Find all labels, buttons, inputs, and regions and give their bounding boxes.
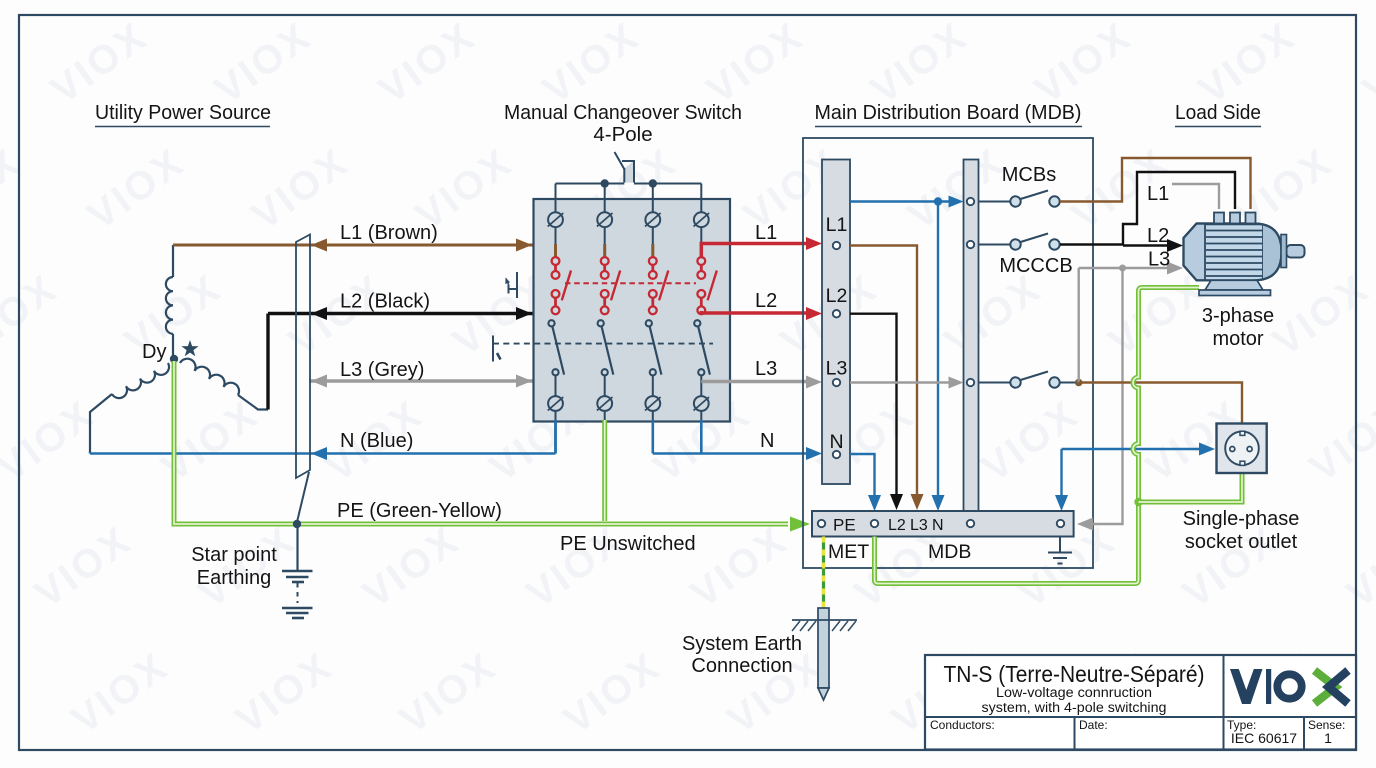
svg-text:L1: L1 [826, 214, 848, 236]
svg-text:L2: L2 [1147, 225, 1169, 247]
svg-text:4-Pole: 4-Pole [593, 123, 652, 146]
svg-text:N: N [760, 430, 774, 452]
svg-text:PE Unswitched: PE Unswitched [560, 533, 696, 555]
svg-text:L2: L2 [888, 517, 906, 534]
svg-text:3-phase: 3-phase [1202, 305, 1274, 327]
svg-text:MDB: MDB [928, 541, 971, 563]
svg-text:MCCCB: MCCCB [999, 255, 1072, 277]
svg-text:System Earth: System Earth [682, 633, 802, 655]
svg-text:Earthing: Earthing [197, 567, 272, 589]
svg-text:PE: PE [833, 516, 856, 535]
svg-text:L2: L2 [826, 285, 848, 307]
svg-text:Conductors:: Conductors: [930, 718, 995, 732]
svg-text:N: N [829, 431, 843, 453]
svg-text:L2: L2 [755, 290, 777, 312]
svg-text:Manual Changeover Switch: Manual Changeover Switch [504, 101, 742, 124]
svg-text:Star point: Star point [191, 544, 277, 566]
svg-text:Single-phase: Single-phase [1183, 508, 1300, 530]
svg-text:PE (Green-Yellow): PE (Green-Yellow) [337, 500, 502, 522]
svg-text:TN-S (Terre-Neutre-Séparé): TN-S (Terre-Neutre-Séparé) [944, 661, 1205, 687]
svg-text:Low-voltage connruction: Low-voltage connruction [996, 685, 1152, 700]
svg-text:MET: MET [828, 541, 869, 563]
svg-text:L1: L1 [1147, 183, 1169, 205]
svg-text:MCBs: MCBs [1002, 164, 1056, 186]
svg-text:L3: L3 [910, 517, 928, 534]
svg-text:Load Side: Load Side [1175, 101, 1261, 124]
svg-text:Utility Power Source: Utility Power Source [95, 101, 271, 124]
svg-text:L2 (Black): L2 (Black) [340, 291, 430, 313]
svg-text:L3: L3 [826, 358, 848, 380]
svg-text:N (Blue): N (Blue) [340, 430, 413, 452]
svg-text:L3 (Grey): L3 (Grey) [340, 359, 424, 381]
svg-text:IEC 60617: IEC 60617 [1231, 730, 1297, 746]
svg-text:motor: motor [1212, 328, 1263, 350]
svg-text:L1: L1 [755, 222, 777, 244]
svg-text:L3: L3 [1148, 249, 1170, 271]
svg-text:system, with 4-pole switching: system, with 4-pole switching [982, 700, 1167, 715]
svg-text:Dy: Dy [142, 341, 166, 363]
svg-text:1: 1 [1324, 730, 1332, 746]
svg-text:L1 (Brown): L1 (Brown) [340, 222, 438, 244]
svg-text:Connection: Connection [691, 655, 792, 677]
svg-text:L3: L3 [755, 358, 777, 380]
svg-text:Main Distribution Board (MDB): Main Distribution Board (MDB) [815, 101, 1082, 124]
svg-text:Date:: Date: [1079, 718, 1108, 732]
svg-text:N: N [932, 517, 944, 534]
svg-text:socket outlet: socket outlet [1185, 531, 1298, 553]
